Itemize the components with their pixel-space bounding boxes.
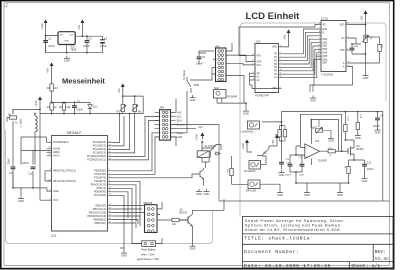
+5V arrow IC3 (282, 29, 291, 47)
title block frame (243, 216, 394, 267)
svg-text:PD7(AIN1): PD7(AIN1) (94, 194, 106, 197)
capacitor C2 (83, 36, 92, 53)
svg-text:10nF: 10nF (299, 175, 305, 177)
peak jumper SJ1 (132, 238, 162, 246)
svg-text:VCC: VCC (53, 199, 58, 202)
svg-text:+5V: +5V (177, 110, 182, 114)
svg-text:IC3: IC3 (256, 40, 261, 44)
svg-text:+5V: +5V (283, 35, 287, 40)
EINGANG box (240, 121, 260, 133)
wire regulator out (46, 36, 103, 53)
transistor Q3 BS250 (345, 140, 364, 160)
bottom rail (219, 125, 389, 201)
wire +12V down (45, 26, 47, 53)
junction dots power (45, 35, 47, 37)
gnd below trimmer (363, 73, 369, 80)
svg-text:PCF8574P: PCF8574P (255, 94, 269, 98)
svg-text:SDA: SDA (177, 119, 183, 123)
trimmer R11 (362, 31, 372, 47)
svg-text:4k7: 4k7 (54, 87, 59, 90)
svg-text:+5V: +5V (360, 16, 364, 21)
capacitor C3 electrolytic (100, 36, 108, 53)
capacitor C4 (8, 158, 16, 188)
svg-text:REV:: REV: (375, 249, 387, 255)
+5V arrow LCD right (360, 10, 368, 21)
ISP header JP2 (144, 201, 158, 233)
wire K gnd (313, 67, 353, 93)
svg-text:geschlossen > 50A: geschlossen > 50A (137, 257, 159, 261)
capacitor C15 at LCD (350, 44, 360, 54)
inductor L1 (20, 114, 38, 151)
op-amp IC4 TL081P (296, 139, 328, 163)
svg-text:AUSGANG: AUSGANG (244, 170, 256, 173)
capacitor C10 (279, 151, 291, 169)
svg-text:PB6(XTAL1/TOSC1): PB6(XTAL1/TOSC1) (53, 170, 76, 173)
zener diode D1 (88, 102, 98, 113)
feedback loop wire (301, 114, 342, 151)
svg-text:S1 Taster: S1 Taster (183, 70, 186, 80)
resistor R3 (47, 102, 58, 113)
svg-text:Document Number:: Document Number: (244, 249, 300, 255)
resistor R2 (47, 69, 59, 102)
IC1 right pin stubs (108, 142, 113, 223)
svg-text:AVCC: AVCC (53, 155, 60, 158)
svg-text:C13: C13 (28, 173, 33, 176)
svg-text:+_EINGANG_−: +_EINGANG_− (240, 130, 256, 133)
svg-text:+5V: +5V (77, 25, 81, 30)
svg-text:BS250: BS250 (356, 148, 364, 151)
gnd below IC2 (243, 109, 249, 116)
svg-text:offen > 20A: offen > 20A (141, 252, 155, 256)
wires JP5 to PCF (199, 43, 253, 103)
IMPULSE box (246, 180, 280, 193)
JP4 pin stubs (155, 112, 176, 137)
wires relay (202, 141, 215, 169)
svg-text:PC6(/RESET): PC6(/RESET) (53, 141, 69, 144)
wires C16 C17 (290, 146, 340, 190)
capacitor C13 (22, 150, 35, 188)
svg-text:SCL: SCL (257, 64, 262, 67)
+12V arrow left (34, 96, 42, 107)
svg-text:2RM: 2RM (194, 84, 199, 87)
svg-text:470uF: 470uF (100, 45, 107, 48)
wire VDD to +5V (349, 17, 366, 31)
relay diode D2 (215, 152, 221, 155)
svg-text:OUT: OUT (69, 35, 74, 37)
+5V arrow near S2 (271, 134, 279, 145)
IC1 left pin labels (53, 141, 76, 202)
LCD pin labels (323, 23, 328, 64)
svg-text:+5V: +5V (117, 88, 121, 93)
capacitor C9 (72, 101, 84, 114)
svg-text:+5V: +5V (46, 68, 50, 73)
svg-text:+12V: +12V (194, 134, 198, 141)
svg-text:100nF: 100nF (373, 125, 380, 128)
+12V supply arrow (40, 19, 48, 30)
bottom wire to gnd (13, 188, 52, 196)
svg-text:0,1%: 0,1% (347, 116, 349, 121)
switch S2 (257, 141, 277, 156)
IC2 PCM04P box (214, 87, 247, 109)
divider top rail (52, 101, 90, 103)
svg-text:GoB: GoB (177, 135, 183, 139)
svg-text:VSS: VSS (340, 49, 345, 52)
I2C wires to JP4 (113, 116, 160, 159)
JP4 wires right (171, 91, 220, 146)
svg-text:Grn: Grn (199, 125, 204, 129)
grounds below relay area (196, 189, 202, 196)
top rail (282, 111, 383, 113)
resistor R10 backlight (349, 37, 383, 63)
svg-text:100nF: 100nF (367, 168, 374, 171)
svg-text:L1 10μH: L1 10μH (20, 119, 23, 128)
wire XTAL1 (45, 171, 52, 181)
frame corner tick top-left (4, 3, 7, 7)
resistor R1 (8, 114, 18, 125)
trimmer R12 (314, 120, 323, 134)
wire PC6 reset (21, 137, 47, 150)
svg-text:100nF: 100nF (8, 158, 11, 165)
svg-text:100nF: 100nF (196, 63, 203, 66)
inner loop wire (311, 120, 338, 152)
wires P0..P7 to LCD (282, 29, 319, 78)
capacitor C16 (285, 159, 292, 177)
svg-text:DB7: DB7 (323, 62, 328, 65)
AUSGANG box (244, 156, 266, 173)
svg-text:GND: GND (53, 190, 59, 193)
IC1 left pin stubs (47, 142, 52, 200)
wire VCC (40, 114, 52, 201)
ground below regulator (64, 56, 70, 63)
svg-text:PC5(ADC5/SCL): PC5(ADC5/SCL) (87, 159, 106, 162)
svg-text:VDD: VDD (272, 46, 277, 49)
svg-text:Z5,1: Z5,1 (93, 106, 98, 109)
+5V wire R10 top (366, 36, 380, 38)
input resistor pair R7 R8 (262, 112, 287, 151)
svg-text:100nF: 100nF (285, 175, 292, 177)
ground bottom middle (121, 251, 127, 258)
wire VO to trimmer wiper (349, 38, 361, 44)
svg-text:Alarm ab 14,8V, Strommessberei: Alarm ab 14,8V, Strommessbereich 0-50A (245, 227, 340, 232)
svg-text:VO: VO (341, 37, 345, 40)
svg-text:IC1: IC1 (52, 234, 57, 238)
outer black border right (393, 0, 395, 270)
svg-text:100nF: 100nF (48, 45, 55, 48)
svg-text:Date: 25.10.2006 17:29:36: Date: 25.10.2006 17:29:36 (244, 263, 331, 269)
svg-text:+12V: +12V (40, 23, 44, 30)
resistor R14 (344, 160, 355, 183)
resistor R13 (344, 112, 349, 140)
+12V arrow relay (194, 132, 204, 141)
svg-text:RS: RS (323, 23, 327, 26)
svg-text:IMPULSE: IMPULSE (246, 191, 257, 193)
svg-text:JP4: JP4 (160, 106, 165, 110)
svg-text:+12V: +12V (34, 100, 38, 107)
IC3 pin numbers (252, 45, 282, 89)
svg-text:MEGA8-P: MEGA8-P (67, 131, 81, 135)
svg-text:TL081P: TL081P (318, 159, 327, 163)
resistor R4 (59, 102, 71, 113)
IC3 A0-A2 ground wires (250, 73, 279, 88)
+5V arrow divider2 (117, 83, 143, 113)
ground left column (18, 196, 24, 203)
transistor Q2 BD139 (179, 199, 224, 243)
LCD1 pin numbers (318, 23, 350, 67)
svg-text:C12: C12 (367, 162, 372, 165)
svg-text:22uF: 22uF (354, 46, 360, 48)
IC3 pin labels (257, 55, 262, 82)
outer black border bottom (0, 268, 395, 270)
svg-text:100nF: 100nF (76, 108, 83, 111)
svg-text:V1.3c: V1.3c (375, 256, 390, 262)
+5V arrow над R2 (46, 62, 54, 73)
svg-text:PB7(XTAL2/TOSC2): PB7(XTAL2/TOSC2) (53, 180, 76, 183)
outer black border left (0, 0, 2, 270)
wire LCD E RW (310, 56, 319, 92)
ADC wires up from PC0-PC3 (113, 114, 135, 153)
section box LCD Einheit (240, 23, 386, 216)
svg-text:GND: GND (64, 41, 69, 43)
capacitor C17 (298, 157, 305, 177)
wire INT vertical (239, 25, 319, 56)
svg-text:Peak-Balken: Peak-Balken (141, 248, 156, 252)
relay K1 coil (197, 151, 209, 158)
svg-text:TITLE: shack_lcd01a: TITLE: shack_lcd01a (244, 236, 310, 242)
op-amp V+ wire (311, 120, 313, 165)
svg-text:Sheet: 1/1: Sheet: 1/1 (351, 263, 380, 269)
+12V arrow near EINGANG (241, 139, 252, 152)
JP4 right labels (177, 110, 186, 139)
wire AREF net (21, 150, 52, 164)
gnd near S1 (190, 95, 196, 102)
transistor Q4 (196, 168, 204, 186)
LCD pin stubs left (319, 25, 350, 67)
right vertical wire (382, 112, 384, 201)
svg-text:P/CM04P: P/CM04P (227, 96, 238, 99)
capacitor C1 (43, 36, 55, 53)
capacitor C8a (196, 53, 206, 66)
series resistor R16 (328, 148, 348, 157)
trimmer R6 (132, 96, 142, 114)
svg-text:PB5(SCK): PB5(SCK) (94, 222, 106, 225)
ground below Q2 (190, 244, 196, 251)
resistor R9 (172, 218, 179, 226)
IC1 pin numbers (49, 141, 111, 224)
voltage regulator IC5 7805 (58, 32, 77, 52)
svg-text:+5V: +5V (271, 140, 275, 145)
relay contact (211, 145, 222, 158)
svg-text:INT\: INT\ (257, 55, 262, 58)
divider bottom rail (40, 113, 143, 115)
svg-text:7805: 7805 (70, 48, 76, 52)
svg-text:100nF: 100nF (22, 162, 29, 165)
svg-text:IC4: IC4 (315, 139, 320, 143)
IC3 pin stubs (253, 47, 282, 89)
svg-text:100nF: 100nF (83, 45, 90, 48)
IC1 right pin labels (87, 141, 106, 225)
wire VSS gnd (349, 44, 366, 73)
wires ISP right to Q2 (157, 202, 172, 220)
section box Messeinheit (6, 130, 213, 244)
wires R1 node (7, 103, 40, 188)
svg-text:Messeinheit: Messeinheit (62, 77, 105, 86)
PB wires to ISP header (113, 206, 145, 229)
PD wires to JP4/right (113, 133, 160, 175)
svg-text:TUX16X2: TUX16X2 (321, 72, 334, 76)
svg-text:VDD: VDD (339, 23, 344, 26)
outer black border top (0, 0, 395, 1)
switch S1 (183, 70, 199, 93)
svg-text:LCD Einheit: LCD Einheit (246, 11, 301, 22)
svg-text:SCL: SCL (177, 114, 183, 118)
trimmer R5 (117, 96, 126, 114)
+5V supply arrow (77, 19, 85, 36)
resistor R17 (356, 112, 361, 133)
capacitor C12 (354, 160, 374, 176)
capacitor C8 (373, 112, 384, 128)
svg-text:BD139: BD139 (180, 211, 188, 214)
resistor R15 (226, 156, 248, 184)
lower rail wire (296, 182, 349, 184)
svg-text:+12V: +12V (241, 143, 245, 150)
